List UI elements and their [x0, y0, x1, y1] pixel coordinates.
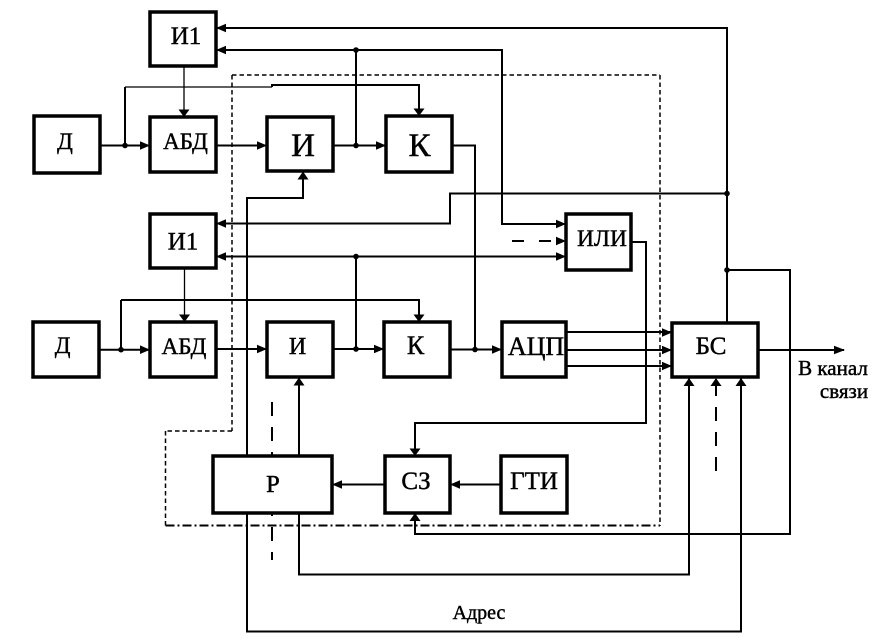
block К row2: [384, 322, 450, 377]
svg-text:И: И: [291, 128, 315, 164]
node junction И1-К1: [353, 143, 359, 149]
wire БС output to channel: [758, 349, 844, 351]
svg-text:СЗ: СЗ: [401, 468, 430, 495]
svg-text:Д: Д: [55, 333, 71, 358]
node junction x727 y270: [724, 267, 730, 273]
arrow into ИЛИ input 2: [556, 237, 566, 246]
arrow into ИЛИ input 3: [556, 252, 566, 261]
block ИЛИ: [566, 214, 631, 270]
arrow into Р right: [332, 480, 342, 489]
arrow into И2 bottom: [294, 378, 305, 386]
svg-text:АБД: АБД: [162, 334, 207, 359]
arrow into БС bottom 2 dashed: [711, 378, 722, 386]
node junction Д1-АБД1: [122, 143, 128, 149]
block СЗ: [385, 456, 450, 513]
node junction И2-К2: [353, 346, 359, 352]
arrow into АБД1 left: [140, 141, 150, 150]
node junction y50: [353, 47, 359, 53]
arrow into АБД2 left: [140, 345, 150, 354]
wire АБД2 to И2: [216, 348, 267, 350]
node junction y256: [353, 254, 359, 260]
block И1 top: [150, 12, 216, 66]
arrow into И1 top input y28: [216, 24, 226, 33]
node junction x727 y193: [724, 191, 730, 197]
dashed vertical through Р: [271, 402, 273, 560]
block ГТИ: [501, 456, 567, 513]
wire y=28 И1a input from БС top riser: [216, 28, 727, 323]
wire АЦП to БС line 2: [566, 349, 672, 351]
node junction Д2-АБД2: [118, 347, 124, 353]
wire Р bottom to БС bottom left: [299, 378, 689, 575]
svg-text:К: К: [407, 331, 425, 360]
wire АБД1 to И1: [216, 145, 267, 147]
arrow into АЦП left: [492, 345, 502, 354]
arrow into БС bottom 1: [684, 378, 695, 386]
wire y=193.5 И1b top input from x=727 junction: [216, 194, 727, 224]
svg-text:В канал: В канал: [798, 356, 868, 380]
wire Д2 to АБД2: [99, 349, 150, 351]
svg-text:связи: связи: [820, 379, 868, 403]
block БС: [672, 323, 758, 377]
svg-text:Адрес: Адрес: [453, 602, 506, 624]
wire feedback y=300 to К2 top: [121, 300, 419, 322]
arrow into К2 top: [414, 315, 425, 323]
arrow into К1 top: [414, 109, 425, 117]
block К row1: [386, 116, 452, 172]
block АБД row2: [150, 322, 216, 377]
block АЦП: [502, 322, 566, 377]
arrow into БС input 2: [662, 346, 672, 355]
wire ИЛИ output to СЗ top: [415, 242, 646, 456]
wire АЦП to БС line 1: [566, 331, 672, 333]
arrow into К1 left: [376, 141, 386, 150]
dashed boundary jog: [166, 430, 233, 432]
node junction К1 output: [472, 347, 478, 353]
svg-text:И1: И1: [171, 23, 202, 50]
wire К1 output down to АЦП input line: [452, 146, 475, 350]
wire riser x=356 row1 output up: [355, 50, 357, 146]
arrow into СЗ right: [450, 480, 460, 489]
block И1 second: [150, 214, 216, 268]
dotted boundary bottom edge: [166, 525, 661, 527]
wire feedback y=86 to К1 top: [125, 86, 272, 88]
block Д row2: [33, 322, 99, 377]
wire y=256 И1b input / ИЛИ bottom input: [216, 256, 566, 258]
block И row2: [267, 322, 333, 377]
wire БС bottom loop to И1 bottom: [247, 172, 741, 632]
arrow into БС bottom 3: [736, 378, 747, 386]
wire ГТИ to СЗ: [450, 484, 501, 486]
wire y=50 И1a input to ИЛИ top input: [216, 50, 566, 224]
wire branch x=790 to СЗ bottom: [415, 270, 790, 534]
arrow into И1b input y223: [216, 219, 226, 228]
wire СЗ to Р: [332, 484, 385, 486]
arrow into К2 left: [374, 345, 384, 354]
arrow into И1 left: [257, 141, 267, 150]
dashed boundary right edge: [659, 75, 661, 526]
arrow into И1b input y256: [216, 252, 226, 261]
dashed boundary top edge: [232, 74, 660, 76]
wire riser x=356 row2 output up: [355, 257, 357, 350]
svg-text:К: К: [408, 128, 431, 164]
dashed boundary left edge lower: [165, 431, 167, 526]
arrow output to channel: [834, 346, 845, 355]
block Д row1: [34, 116, 100, 173]
dashed arrow line into БС bottom middle: [715, 380, 717, 471]
arrow into ИЛИ input 1: [556, 220, 566, 229]
svg-text:ИЛИ: ИЛИ: [577, 226, 627, 252]
arrow into БС input 1: [662, 328, 672, 337]
arrow into АБД2 top: [179, 315, 190, 323]
svg-text:Д: Д: [57, 129, 73, 154]
svg-text:ГТИ: ГТИ: [510, 468, 558, 495]
svg-text:АЦП: АЦП: [508, 332, 565, 361]
block И row1: [267, 117, 333, 171]
dashed line into ИЛИ middle input: [512, 240, 566, 242]
dashed boundary left edge upper: [231, 75, 233, 431]
arrow into И2 left: [257, 345, 267, 354]
svg-text:БС: БС: [696, 333, 727, 360]
svg-text:Р: Р: [266, 471, 280, 498]
wire АЦП to БС line 3: [566, 365, 672, 367]
wire И1a bottom to АБД1 top: [183, 66, 185, 117]
svg-text:И: И: [289, 334, 306, 360]
arrow into СЗ bottom: [410, 513, 421, 521]
block Р: [213, 456, 332, 513]
wire Д1 to АБД1: [100, 145, 150, 147]
svg-text:И1: И1: [168, 229, 199, 256]
arrow into СЗ top: [410, 449, 421, 457]
arrow into И1 top input y50: [216, 46, 226, 55]
wire И2 to К2: [333, 348, 384, 350]
wire И1b bottom to АБД2 top: [184, 268, 186, 322]
wire К2 to АЦП: [450, 349, 502, 351]
arrow into И1 bottom: [298, 172, 309, 180]
svg-text:АБД: АБД: [163, 129, 208, 154]
wire riser x=125 junction to feedback line: [124, 87, 126, 146]
arrow into БС input 3: [662, 362, 672, 371]
wire И1 to К1: [333, 145, 386, 147]
arrow into АБД1 top: [179, 110, 190, 118]
block АБД row1: [150, 117, 216, 172]
wire riser x=121 to row2 feedback: [120, 300, 122, 350]
wire Р top to И2 bottom: [298, 378, 300, 457]
